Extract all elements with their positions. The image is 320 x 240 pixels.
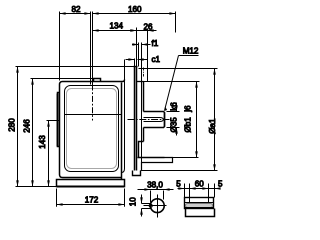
ext line 82 right (90, 12, 92, 85)
svg-text:82: 82 (71, 5, 81, 14)
svg-text:c1: c1 (152, 55, 161, 64)
svg-text:10: 10 (128, 197, 137, 207)
motor left face bulge (58, 93, 60, 147)
svg-text:j6: j6 (184, 105, 193, 113)
lifting lug on motor top (94, 79, 101, 82)
svg-text:134: 134 (110, 21, 124, 30)
keyway slot (142, 203, 152, 205)
flange plate (134, 67, 136, 171)
hub face (143, 82, 145, 112)
c1 ext lines (134, 59, 136, 67)
dim 134 (93, 30, 137, 32)
dim 246 (32, 79, 34, 187)
key view lower block (186, 209, 215, 217)
svg-text:143: 143 (38, 135, 47, 149)
svg-text:60: 60 (195, 179, 205, 188)
10 dim (141, 195, 143, 204)
f1 ext lines (138, 43, 140, 67)
oa1 ext top (139, 68, 218, 70)
ext line 160/134 left (92, 12, 94, 85)
dim 280 (17, 67, 19, 187)
base plate (57, 180, 125, 187)
dim 82 (60, 13, 91, 15)
oa1 ext bottom (141, 170, 218, 172)
spigot line (141, 69, 143, 169)
5/60/5 dims (184, 184, 186, 198)
svg-text:f1: f1 (152, 39, 159, 48)
svg-text:26: 26 (143, 22, 153, 31)
svg-text:38,0: 38,0 (147, 181, 163, 190)
dim 26 arrows outside (129, 30, 137, 32)
oa1 dim (214, 69, 216, 171)
endshield lip face (122, 80, 125, 173)
motor front face (121, 83, 123, 180)
dim 160 (93, 13, 176, 15)
svg-text:5: 5 (176, 179, 181, 188)
motor vertical centerline (92, 85, 94, 121)
svg-text:160: 160 (128, 5, 142, 14)
svg-text:Ø35: Ø35 (169, 117, 178, 133)
shaft internal slot (tapped hole) (144, 118, 164, 122)
svg-text:280: 280 (7, 118, 16, 132)
ext line 26 right (147, 30, 149, 82)
svg-text:k6: k6 (170, 102, 179, 111)
38.0 dim (150, 191, 152, 203)
flange bottom foot (133, 171, 141, 176)
shaft (144, 112, 165, 128)
ext line 134 right / 26 left (136, 28, 138, 67)
ob1 dim (196, 82, 198, 158)
ext line 160 right (175, 12, 177, 33)
o35 ext lines (167, 111, 180, 113)
ob1 ext top (144, 81, 200, 83)
280 top ext (16, 66, 134, 68)
svg-text:M12: M12 (183, 46, 199, 55)
246 top ext (31, 78, 94, 80)
inner contour second line (light) (67, 89, 117, 169)
143 top ext (47, 120, 60, 122)
shaft centerline (128, 119, 170, 121)
flange top rim cap (134, 66, 138, 68)
o35 dim line with outside arrows (176, 103, 178, 112)
dim c1 (126, 59, 135, 61)
inner contour of motor body (65, 86, 119, 172)
ob1 ext bottom (165, 157, 199, 159)
baseline ext (16, 186, 57, 188)
svg-text:246: 246 (22, 119, 31, 133)
motor mid line (65, 114, 122, 116)
hub pilot dashed line (143, 68, 145, 77)
svg-text:Øb1: Øb1 (184, 117, 193, 133)
dim 143 (48, 121, 50, 187)
ext line 82 left (59, 12, 61, 81)
svg-text:5: 5 (218, 179, 223, 188)
housing lower profile (139, 142, 144, 158)
motor body outline (63, 80, 125, 82)
svg-text:172: 172 (85, 195, 99, 204)
svg-text:Øa1: Øa1 (208, 118, 217, 134)
hub top edge (137, 81, 144, 83)
dim f1 (132, 44, 139, 46)
